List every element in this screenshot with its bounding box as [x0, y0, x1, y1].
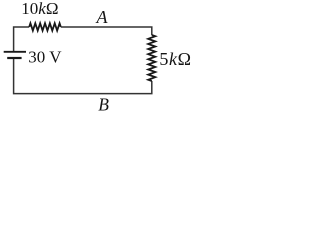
svg-text:B: B [98, 95, 109, 115]
battery V1 negative plate (short) [7, 57, 21, 59]
svg-text:A: A [96, 7, 109, 27]
wire: left vertical below battery, bottom wire past node B, right vertical up to R2 [14, 59, 152, 94]
wire: top segment from R1 past node A to top-right corner, down to R2 [61, 27, 152, 35]
svg-text:30 V: 30 V [28, 48, 62, 67]
resistor R1 10k-ohm horizontal zigzag on top wire [29, 23, 61, 30]
wire: top-left segment, top-left corner, left vertical down to battery [14, 27, 30, 51]
svg-text:10kΩ: 10kΩ [21, 0, 58, 18]
battery V1 positive plate (long) [4, 51, 26, 53]
resistor R2 5k-ohm vertical zigzag on right wire [148, 35, 155, 81]
svg-text:5kΩ: 5kΩ [159, 49, 191, 69]
